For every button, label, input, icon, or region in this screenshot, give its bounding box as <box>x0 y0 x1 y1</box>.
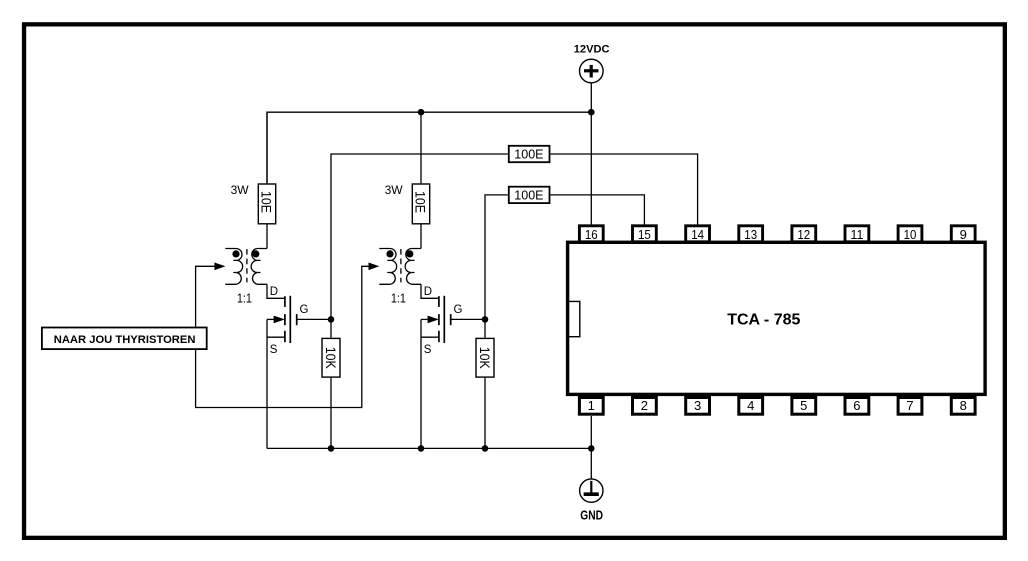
svg-text:15: 15 <box>638 227 651 242</box>
svg-text:GND: GND <box>580 508 603 522</box>
svg-text:7: 7 <box>906 398 913 413</box>
svg-text:12VDC: 12VDC <box>574 43 610 55</box>
svg-text:5: 5 <box>800 398 807 413</box>
svg-text:13: 13 <box>744 227 757 242</box>
svg-text:14: 14 <box>691 227 704 242</box>
svg-text:100E: 100E <box>514 189 543 203</box>
svg-text:9: 9 <box>960 227 967 242</box>
svg-text:3: 3 <box>694 398 701 413</box>
svg-text:12: 12 <box>797 227 810 242</box>
svg-text:16: 16 <box>585 227 598 242</box>
svg-text:8: 8 <box>960 398 967 413</box>
svg-text:NAAR JOU THYRISTOREN: NAAR JOU THYRISTOREN <box>54 334 196 346</box>
svg-text:6: 6 <box>853 398 860 413</box>
svg-text:4: 4 <box>747 398 754 413</box>
svg-text:1: 1 <box>588 398 595 413</box>
svg-text:10: 10 <box>904 227 917 242</box>
svg-text:11: 11 <box>851 227 864 242</box>
svg-text:100E: 100E <box>514 148 543 162</box>
svg-text:TCA - 785: TCA - 785 <box>727 312 800 329</box>
svg-text:2: 2 <box>641 398 648 413</box>
